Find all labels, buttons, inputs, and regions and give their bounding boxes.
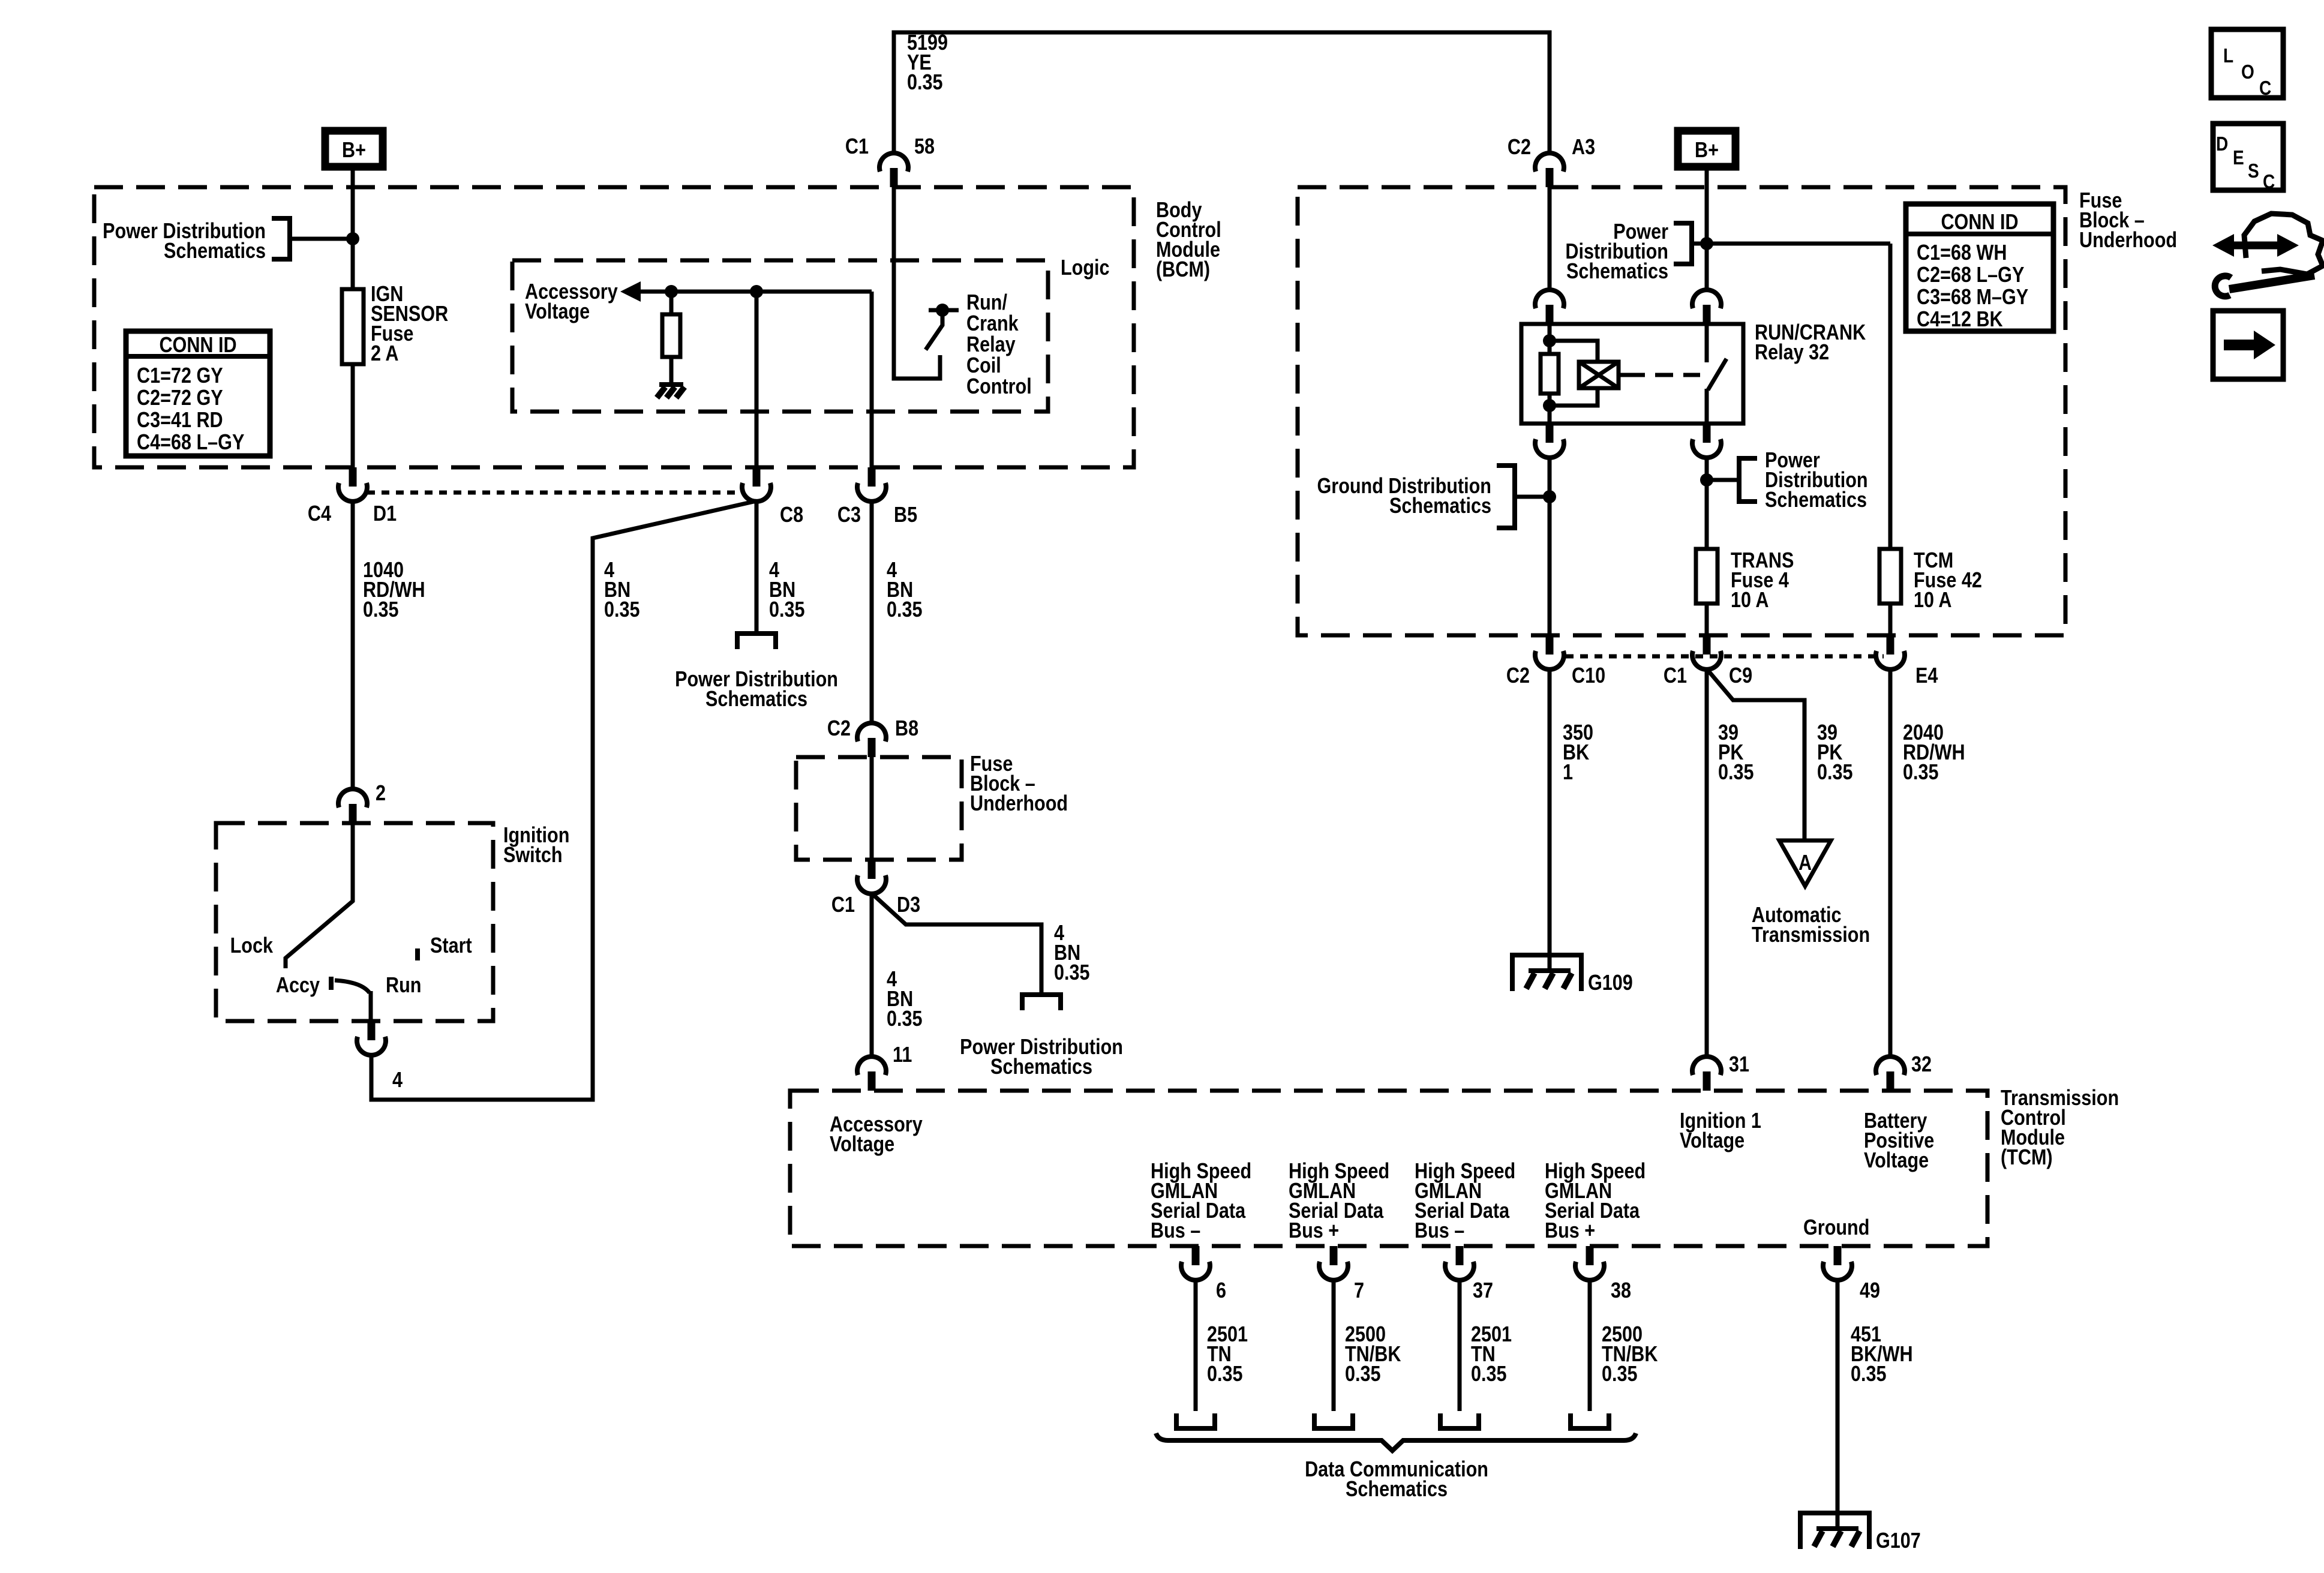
svg-text:C9: C9 [1729,664,1752,688]
svg-text:0.35: 0.35 [1054,961,1090,985]
svg-text:D: D [2216,133,2228,155]
svg-text:C4: C4 [308,502,331,526]
svg-text:37: 37 [1473,1279,1493,1303]
svg-text:Schematics: Schematics [1566,260,1668,284]
svg-text:38: 38 [1611,1279,1631,1303]
svg-text:6: 6 [1216,1279,1226,1303]
svg-text:S: S [2248,160,2259,182]
svg-text:C2=72 GY: C2=72 GY [137,386,223,410]
svg-text:B+: B+ [1695,139,1719,163]
svg-text:Bus –: Bus – [1151,1219,1200,1243]
svg-text:C3=68 M–GY: C3=68 M–GY [1917,286,2028,310]
svg-text:A: A [1798,851,1812,875]
svg-text:7: 7 [1354,1279,1364,1303]
svg-text:G109: G109 [1588,971,1633,995]
svg-text:C3=41 RD: C3=41 RD [137,409,223,433]
svg-text:Schematics: Schematics [1765,488,1867,512]
svg-text:Control: Control [966,375,1032,399]
svg-text:0.35: 0.35 [1817,761,1853,785]
svg-text:Lock: Lock [230,934,274,958]
svg-text:C1: C1 [831,893,855,917]
svg-text:Voltage: Voltage [1680,1129,1744,1153]
svg-text:CONN ID: CONN ID [1941,211,2018,235]
svg-text:C2: C2 [1508,136,1531,160]
svg-text:Ground: Ground [1803,1216,1869,1240]
svg-text:Run/: Run/ [966,291,1007,315]
svg-text:0.35: 0.35 [769,598,805,622]
svg-text:Coil: Coil [966,354,1001,378]
svg-text:Voltage: Voltage [1864,1149,1929,1173]
svg-text:0.35: 0.35 [1207,1362,1243,1386]
svg-text:2: 2 [376,782,386,806]
svg-text:31: 31 [1729,1053,1749,1077]
svg-text:A3: A3 [1572,136,1595,160]
svg-text:Underhood: Underhood [2079,229,2177,253]
svg-text:(BCM): (BCM) [1156,258,1210,282]
svg-text:G107: G107 [1876,1529,1921,1553]
svg-text:L: L [2223,45,2233,67]
svg-text:Start: Start [430,934,472,958]
svg-text:E4: E4 [1915,664,1938,688]
svg-text:Schematics: Schematics [1389,494,1491,518]
svg-text:Schematics: Schematics [1346,1478,1448,1502]
svg-text:Schematics: Schematics [990,1055,1092,1079]
svg-text:E: E [2233,147,2244,169]
svg-text:4: 4 [392,1068,403,1092]
svg-text:C: C [2259,77,2271,100]
svg-text:C4=12 BK: C4=12 BK [1917,308,2003,332]
svg-text:0.35: 0.35 [1718,761,1754,785]
svg-text:Relay 32: Relay 32 [1755,341,1829,365]
svg-text:C8: C8 [780,503,803,527]
svg-text:Switch: Switch [503,843,563,867]
svg-text:10 A: 10 A [1731,589,1768,613]
svg-text:49: 49 [1860,1279,1880,1303]
svg-text:0.35: 0.35 [887,598,923,622]
svg-text:Bus +: Bus + [1289,1219,1339,1243]
svg-text:C1=72 GY: C1=72 GY [137,364,223,388]
svg-text:D3: D3 [897,893,920,917]
svg-text:Transmission: Transmission [1752,923,1870,947]
svg-text:Run: Run [386,974,421,998]
svg-text:0.35: 0.35 [604,598,640,622]
svg-text:Schematics: Schematics [705,688,807,712]
svg-text:Crank: Crank [966,312,1019,336]
svg-text:D1: D1 [373,502,397,526]
svg-text:C1: C1 [1664,664,1687,688]
svg-text:10 A: 10 A [1914,589,1951,613]
svg-text:0.35: 0.35 [1602,1362,1638,1386]
svg-text:Schematics: Schematics [164,239,266,263]
svg-text:C1=68 WH: C1=68 WH [1917,241,2007,265]
svg-text:Relay: Relay [966,333,1016,357]
svg-text:11: 11 [893,1043,912,1067]
svg-text:Logic: Logic [1061,256,1110,280]
svg-text:0.35: 0.35 [1903,761,1939,785]
svg-text:Voltage: Voltage [525,300,590,324]
svg-text:Bus +: Bus + [1545,1219,1595,1243]
svg-text:C2=68 L–GY: C2=68 L–GY [1917,263,2024,287]
svg-text:0.35: 0.35 [1345,1362,1381,1386]
svg-text:(TCM): (TCM) [2001,1146,2053,1170]
svg-text:2 A: 2 A [371,342,398,366]
svg-text:Bus –: Bus – [1415,1219,1464,1243]
svg-text:1: 1 [1563,761,1573,785]
svg-text:Underhood: Underhood [970,792,1068,816]
svg-text:0.35: 0.35 [1471,1362,1507,1386]
svg-text:C: C [2263,171,2275,193]
svg-text:0.35: 0.35 [887,1007,923,1031]
svg-text:0.35: 0.35 [363,598,399,622]
svg-text:Accy: Accy [276,974,320,998]
svg-text:58: 58 [914,135,935,159]
svg-text:0.35: 0.35 [907,71,943,95]
svg-text:O: O [2241,61,2254,83]
svg-text:C1: C1 [845,135,869,159]
svg-text:C10: C10 [1572,664,1605,688]
svg-text:C2: C2 [1506,664,1530,688]
svg-text:Voltage: Voltage [830,1133,894,1157]
svg-text:C3: C3 [837,503,861,527]
svg-text:32: 32 [1911,1053,1932,1077]
svg-text:C2: C2 [827,717,851,741]
svg-text:C4=68 L–GY: C4=68 L–GY [137,431,244,455]
svg-text:B5: B5 [894,503,917,527]
svg-text:B8: B8 [895,717,918,741]
svg-text:0.35: 0.35 [1851,1362,1887,1386]
svg-text:B+: B+ [342,139,366,163]
svg-text:CONN ID: CONN ID [159,334,236,358]
